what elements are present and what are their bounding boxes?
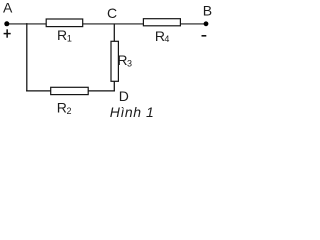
svg-text:R: R	[57, 99, 67, 115]
polarity + at terminal A	[4, 29, 11, 37]
resistor R2	[51, 87, 88, 94]
svg-text:R: R	[57, 27, 67, 43]
wire: left vertical branch down to bottom rail	[26, 23, 28, 91]
label R1	[57, 27, 72, 43]
wire: vertical branch at node C through R3 to node D	[113, 24, 115, 92]
svg-text:B: B	[203, 3, 212, 19]
label R4	[155, 28, 170, 44]
svg-text:D: D	[119, 88, 129, 104]
resistor R3	[111, 41, 118, 81]
label R3	[117, 52, 132, 68]
terminal node B (dot)	[204, 21, 209, 26]
wire: top rail from node A to node B	[7, 23, 206, 25]
resistor R4	[143, 19, 180, 26]
terminal node A (dot)	[4, 21, 9, 26]
svg-text:C: C	[107, 5, 117, 21]
svg-text:4: 4	[164, 34, 169, 44]
polarity - at terminal B	[202, 35, 207, 37]
svg-text:2: 2	[67, 106, 72, 116]
svg-text:3: 3	[127, 59, 132, 69]
label R2	[57, 99, 72, 115]
wire: bottom rail to node D	[26, 90, 115, 92]
resistor R1	[46, 19, 82, 27]
svg-text:R: R	[117, 52, 127, 68]
svg-text:A: A	[3, 0, 13, 16]
svg-text:1: 1	[67, 34, 72, 44]
svg-text:Hình 1: Hình 1	[110, 104, 155, 120]
